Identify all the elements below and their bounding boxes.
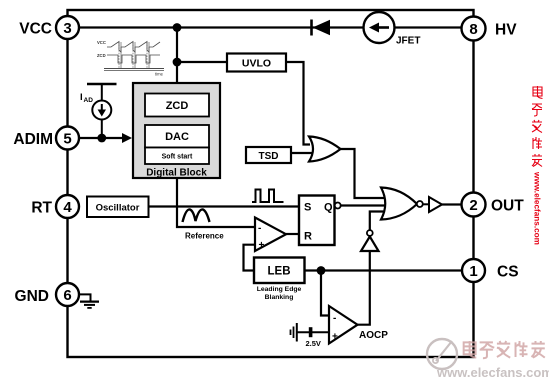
wire comparator plus input from LEB	[244, 245, 256, 271]
LEB block	[254, 258, 305, 284]
pin 3 VCC	[56, 16, 79, 39]
svg-text:www.elecfans.com: www.elecfans.com	[533, 171, 542, 245]
pin 1 CS	[462, 259, 485, 282]
node junction LEB/CS/AOCP	[317, 266, 326, 275]
svg-text:2.5V: 2.5V	[306, 339, 321, 348]
wire comparator output to latch R	[286, 233, 299, 235]
wire vertical from VCC rail to Digital Block top	[176, 28, 178, 84]
IC boundary box	[68, 10, 474, 357]
waveform inset VCC/ZCD	[97, 40, 164, 77]
power rail bar above IAD	[87, 84, 117, 101]
svg-text:UVLO: UVLO	[242, 58, 271, 70]
ground and battery 2.5V reference	[291, 323, 330, 342]
wire VCC rail from pin 3 to HV diode	[68, 26, 462, 28]
watermark bottom 电子发烧友	[436, 341, 549, 380]
wire UVLO output to OR1	[286, 62, 310, 145]
svg-text:DAC: DAC	[165, 131, 189, 143]
svg-text:-: -	[333, 313, 336, 324]
UVLO block	[227, 54, 286, 72]
svg-text:JFET: JFET	[396, 36, 420, 47]
svg-text:RT: RT	[31, 200, 52, 217]
label OUT	[491, 198, 524, 215]
svg-text:S: S	[304, 202, 311, 214]
svg-text:ADIM: ADIM	[13, 131, 53, 148]
Digital Block container	[133, 83, 220, 178]
svg-text:www.elecfans.com: www.elecfans.com	[436, 365, 549, 380]
wire AOCP output to inverter	[358, 251, 370, 325]
node junction ADIM	[97, 134, 106, 143]
wire TSD output to OR1	[291, 152, 316, 154]
TSD block	[246, 147, 291, 163]
svg-text:CS: CS	[497, 264, 519, 281]
svg-text:+: +	[332, 332, 338, 343]
pin 8 HV	[462, 17, 486, 41]
pulse symbol on S line	[252, 190, 284, 203]
node junction VCC/digital tap	[173, 23, 182, 32]
svg-text:4: 4	[63, 199, 72, 216]
svg-text:OUT: OUT	[491, 198, 524, 215]
label Reference	[185, 232, 224, 241]
label IAD	[80, 92, 93, 104]
wire oscillator to latch S input	[149, 205, 300, 207]
wire OR2 to buffer	[423, 203, 429, 205]
svg-text:1: 1	[469, 263, 477, 280]
label AOCP	[359, 330, 388, 341]
label 2.5V	[306, 339, 321, 348]
label VCC	[19, 21, 52, 38]
wire OR1 output to OR2 top input	[341, 149, 393, 198]
latch Q output bubble	[335, 203, 341, 209]
oscillator block	[87, 197, 149, 218]
svg-text:-: -	[258, 223, 261, 234]
svg-text:Blanking: Blanking	[265, 294, 294, 301]
buffer driver	[429, 197, 442, 212]
label Digital Block	[146, 168, 207, 179]
svg-text:ZCD: ZCD	[97, 53, 106, 58]
comparator AOCP	[329, 306, 358, 344]
svg-text:VCC: VCC	[97, 40, 106, 45]
svg-text:Digital Block: Digital Block	[146, 168, 207, 179]
pin 6 GND	[56, 283, 79, 306]
svg-text:6: 6	[63, 287, 71, 304]
label ADIM	[13, 131, 53, 148]
label CS	[497, 264, 519, 281]
svg-text:R: R	[304, 231, 312, 243]
block ZCD	[145, 94, 209, 117]
wire Digital Block bottom to reference line	[177, 178, 255, 227]
or-gate OR1 (UVLO/TSD)	[309, 137, 341, 162]
watermark bottom logo circle	[427, 339, 457, 369]
svg-text:Q: Q	[324, 202, 333, 214]
wire junction to AOCP minus input	[321, 271, 329, 316]
svg-text:I: I	[80, 92, 83, 103]
label JFET	[396, 36, 420, 47]
wire UVLO input	[177, 61, 227, 63]
label RT	[31, 200, 52, 217]
block Soft start	[145, 148, 209, 165]
svg-text:LEB: LEB	[268, 266, 291, 278]
svg-text:TSD: TSD	[259, 151, 279, 162]
wire LEB to CS pin	[305, 269, 463, 271]
pin 4 RT	[56, 195, 79, 218]
svg-text:Soft start: Soft start	[162, 154, 193, 161]
label Leading Edge Blanking	[257, 286, 302, 301]
label HV	[495, 22, 517, 39]
svg-text:3: 3	[63, 20, 71, 37]
svg-text:5: 5	[63, 131, 71, 148]
svg-text:+: +	[259, 240, 265, 251]
wire buffer to OUT pin	[442, 203, 462, 205]
diode D1 (HV to VCC)	[312, 20, 331, 36]
inverter INV1	[361, 230, 379, 251]
current source IAD	[92, 101, 111, 120]
wire inverter output to OR2 bottom input	[370, 212, 392, 231]
watermark red vertical text 电子发烧友	[532, 86, 543, 245]
svg-text:time: time	[155, 72, 164, 77]
svg-text:2: 2	[469, 197, 477, 214]
pin 2 OUT	[462, 193, 486, 217]
wire ADIM pin to Digital Block with arrow	[79, 133, 132, 143]
ground symbol at GND pin	[79, 294, 99, 308]
block DAC	[145, 125, 209, 148]
svg-text:AOCP: AOCP	[359, 330, 388, 341]
wire Q to OR2	[341, 204, 392, 206]
label GND	[15, 288, 49, 305]
comparator PWM	[255, 218, 286, 252]
svg-text:8: 8	[469, 21, 477, 38]
svg-text:VCC: VCC	[19, 21, 52, 38]
latch SR	[299, 196, 335, 246]
wire IAD to ADIM node	[101, 120, 103, 139]
svg-text:HV: HV	[495, 22, 517, 39]
current source JFET	[364, 12, 395, 43]
or-gate OR2 (NOR output stage)	[381, 188, 423, 220]
sawtooth symbol	[183, 209, 210, 222]
pin 5 ADIM	[56, 127, 79, 150]
svg-text:GND: GND	[15, 288, 49, 305]
svg-text:Oscillator: Oscillator	[96, 203, 140, 214]
node junction UVLO tap	[173, 58, 182, 67]
svg-text:Reference: Reference	[185, 232, 224, 241]
svg-text:Leading Edge: Leading Edge	[257, 286, 302, 293]
svg-text:ZCD: ZCD	[166, 100, 189, 112]
svg-text:AD: AD	[84, 97, 94, 104]
